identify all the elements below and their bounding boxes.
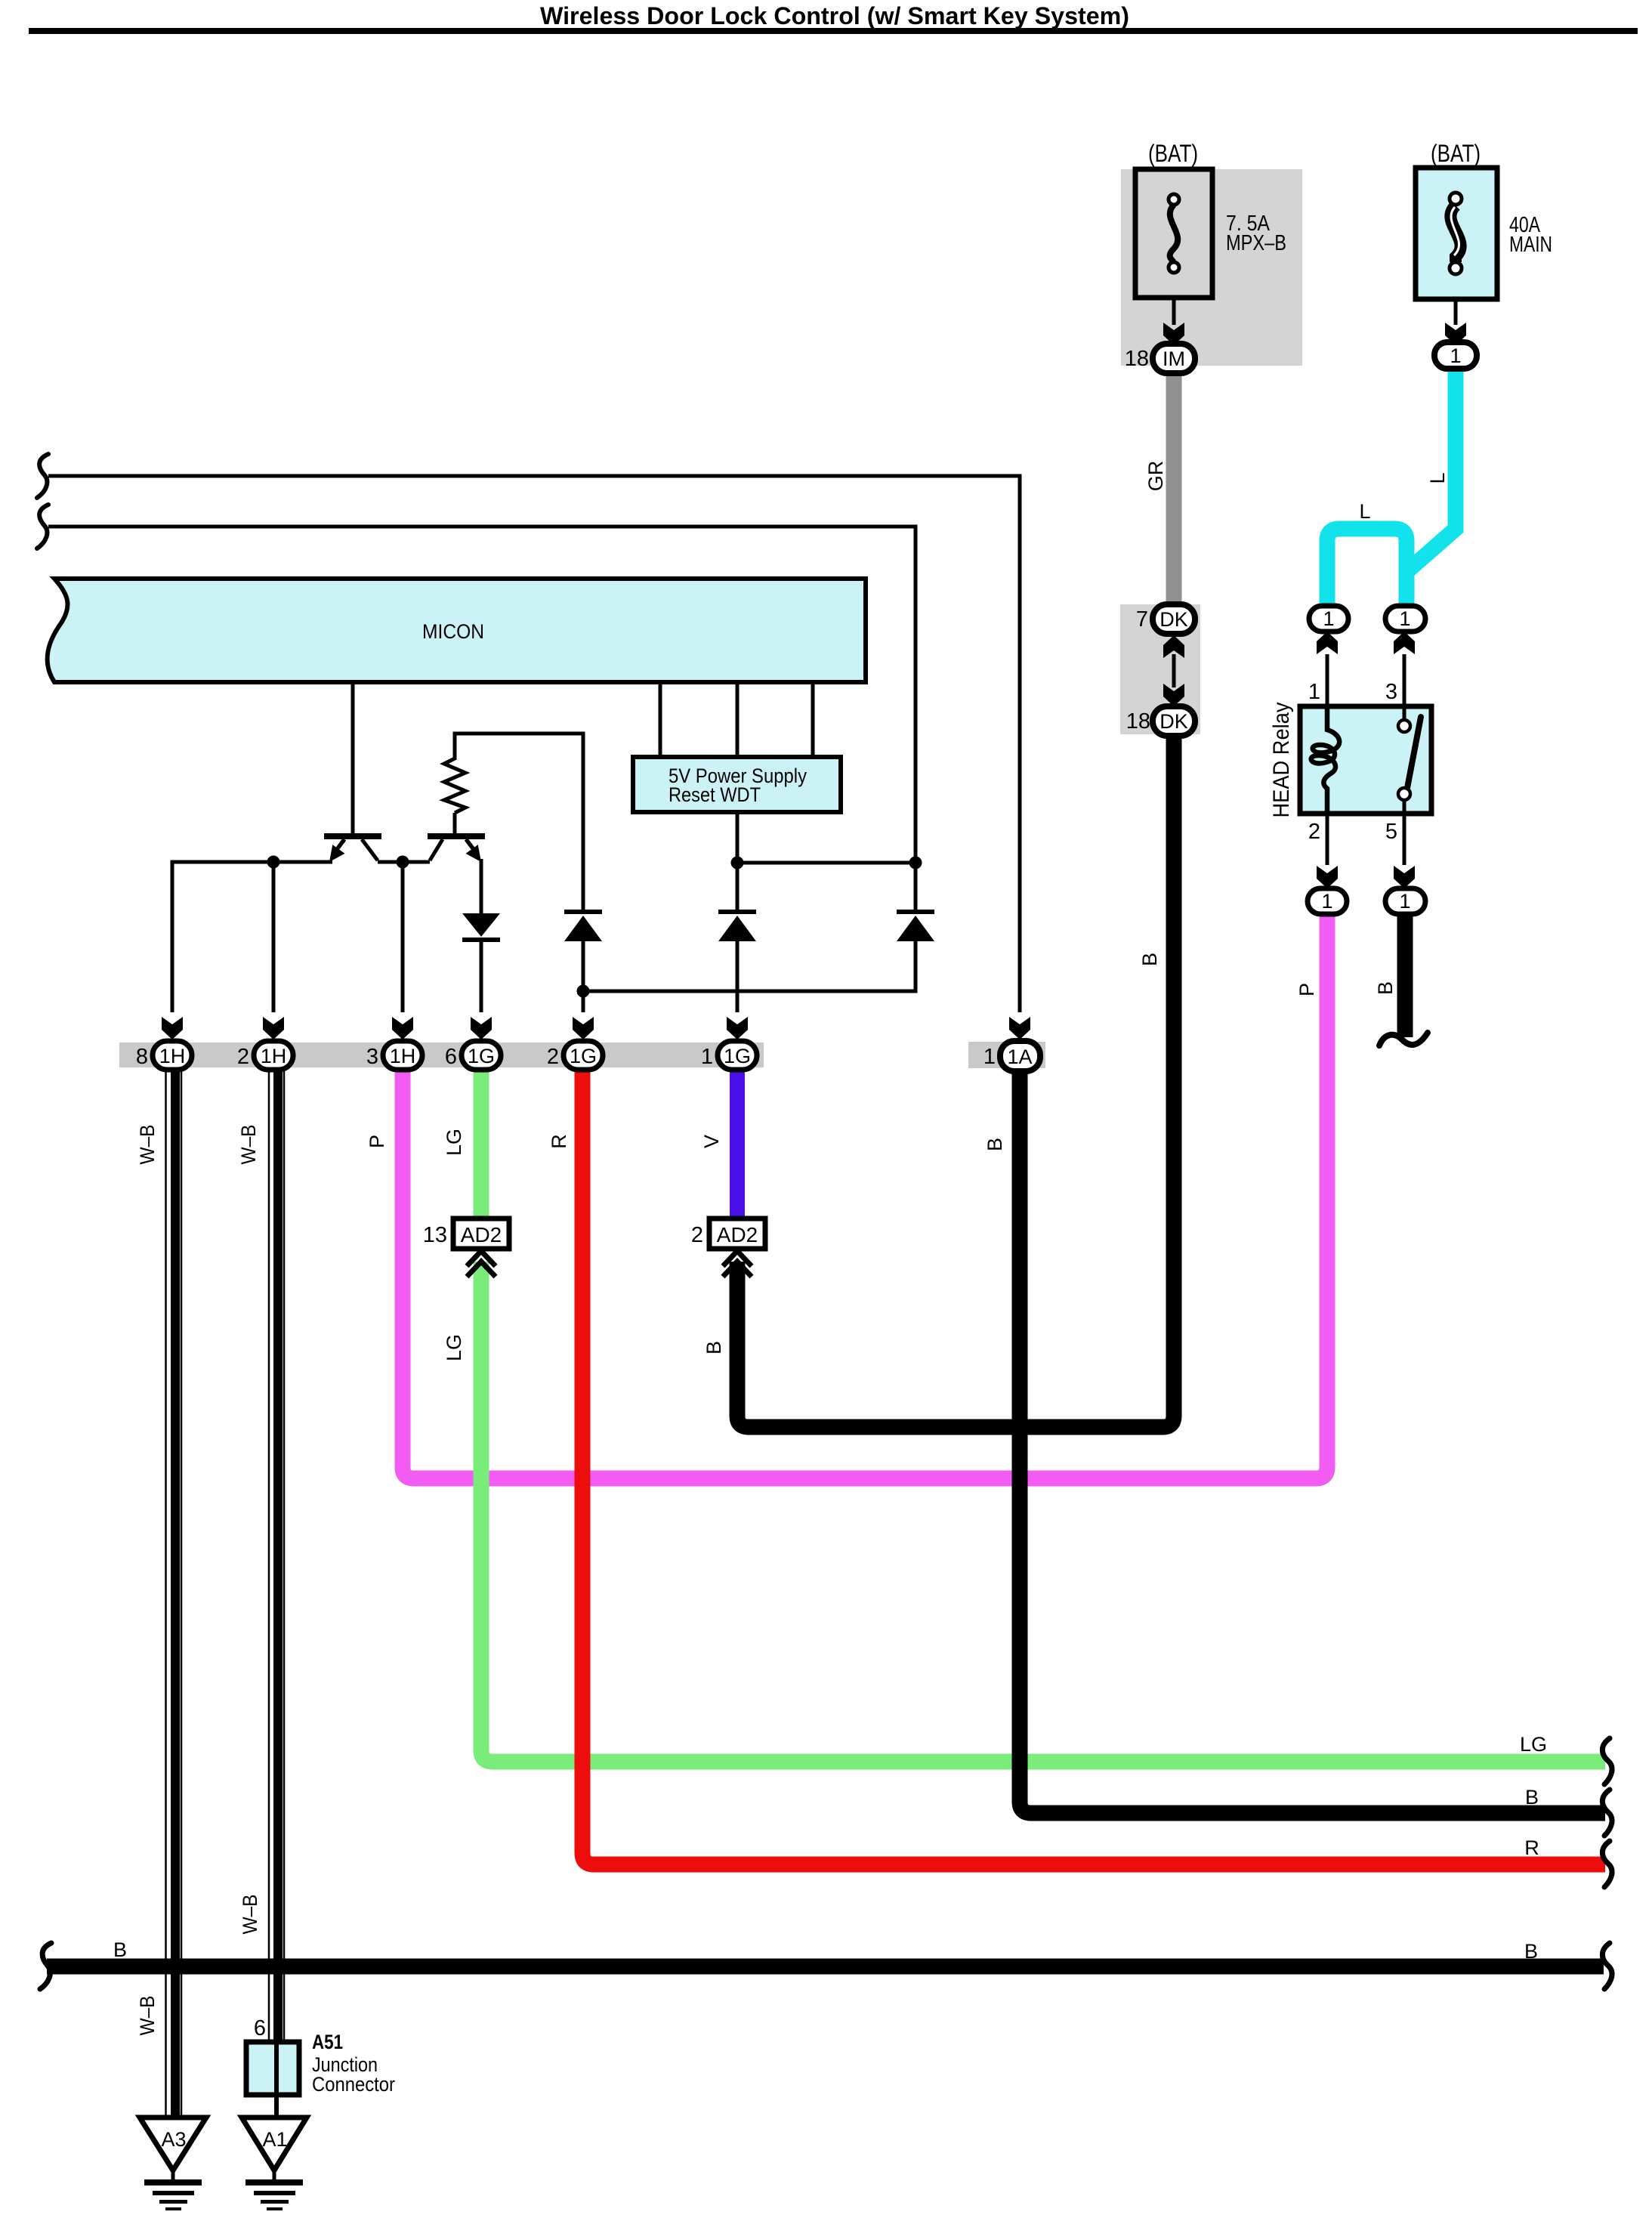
transistor Q1: [324, 833, 381, 839]
diode D2 (up): [564, 910, 602, 914]
wire W-B right black stripe: [273, 1068, 283, 2042]
resistor R1: [444, 758, 465, 833]
svg-text:B: B: [1374, 981, 1397, 995]
ground A1 triangle: [242, 2118, 307, 2170]
ground A1 symbol: [273, 2170, 276, 2180]
wire B ground bus: [47, 1959, 1604, 1975]
wire P pink: 3(1H) to HEAD relay pin2: [403, 913, 1327, 1478]
node dot D4 top: [909, 857, 922, 870]
continuation brace R right: [1602, 1841, 1612, 1887]
connector 2 1G: [564, 1041, 603, 1070]
wire MICON to 5V box (three): [660, 682, 813, 758]
svg-text:HEAD Relay: HEAD Relay: [1269, 703, 1294, 818]
arrow into 1: [1445, 323, 1466, 345]
wire W-B left (8 1H to A3): outline lines: [166, 1068, 182, 2118]
fuse 7.5A MPX-B box: [1135, 169, 1212, 298]
svg-text:1G: 1G: [468, 1045, 495, 1067]
ground A3 symbol: [171, 2170, 175, 2180]
title rule: [29, 28, 1638, 34]
svg-text:3: 3: [1385, 680, 1397, 704]
svg-text:LG: LG: [443, 1129, 465, 1156]
svg-text:1: 1: [1321, 890, 1332, 913]
arrow up to 7DK: [1163, 635, 1184, 658]
wire GR: IM to 7DK: [1166, 372, 1182, 606]
wire L cyan: 40A fuse to relay pin3 connector: [1407, 366, 1456, 610]
svg-text:1H: 1H: [261, 1045, 287, 1067]
svg-text:1H: 1H: [390, 1045, 416, 1067]
svg-text:1H: 1H: [159, 1045, 186, 1067]
connector strip shade 1A: [968, 1042, 1045, 1068]
svg-text:GR: GR: [1144, 461, 1167, 492]
wire R: 2(1G) to right edge: [582, 1068, 1605, 1864]
wire relay pin3 up: [1403, 654, 1407, 705]
svg-text:A3: A3: [161, 2128, 186, 2151]
continuation brace bus right: [1602, 1943, 1612, 1989]
connector 6 1G: [462, 1041, 501, 1070]
wire dot to 2(1H): [272, 862, 276, 1012]
wire B: relay pin5 stub: [1397, 913, 1413, 1037]
relay coil: [1311, 706, 1340, 814]
svg-text:6: 6: [445, 1045, 457, 1069]
wire A51 through to A1: [274, 2042, 279, 2118]
svg-text:1G: 1G: [570, 1045, 597, 1067]
connector 3 1H: [383, 1041, 422, 1070]
svg-text:R: R: [1524, 1836, 1539, 1859]
svg-text:B: B: [1525, 1786, 1539, 1809]
MICON box: [48, 579, 866, 682]
wire dot to 3(1H): [401, 862, 405, 1012]
wire 2 (to D4): [48, 527, 916, 910]
svg-text:B: B: [702, 1341, 725, 1355]
svg-text:8: 8: [136, 1045, 148, 1069]
connector 1 relay bottom-right: [1385, 888, 1425, 914]
svg-text:Wireless Door Lock Control (w/: Wireless Door Lock Control (w/ Smart Key…: [540, 2, 1129, 29]
wire MICON to Q1 base: [351, 682, 355, 836]
diode D4 (up): [897, 910, 934, 914]
svg-text:W–B: W–B: [237, 1125, 260, 1165]
svg-text:B: B: [983, 1138, 1006, 1151]
connector 8 1H: [153, 1041, 192, 1070]
svg-text:B: B: [1524, 1940, 1538, 1963]
wire Q2 collector to D1: [480, 859, 483, 913]
wire 1 (to 1A): [48, 476, 1020, 1012]
wire relay pin5 down: [1403, 814, 1407, 865]
svg-text:P: P: [1295, 983, 1318, 996]
arrow up into right connector: [1394, 632, 1415, 654]
junction block shade (DK): [1120, 604, 1200, 734]
svg-text:2: 2: [547, 1045, 559, 1069]
continuation brace bus left: [40, 1943, 51, 1989]
continuation brace wire2 left: [37, 505, 48, 548]
svg-text:1: 1: [701, 1045, 713, 1069]
svg-text:MICON: MICON: [422, 620, 484, 643]
connector 1 (40A): [1434, 342, 1477, 369]
wire Q1 emitter to 8(1H): [172, 862, 332, 1012]
svg-text:(BAT): (BAT): [1148, 140, 1198, 167]
svg-text:P: P: [366, 1135, 388, 1148]
wire relay pin2 down: [1326, 814, 1329, 865]
wire V: 1(1G) to AD2: [730, 1068, 745, 1220]
wire D2 to 2(1G): [582, 941, 585, 1012]
svg-text:MPX–B: MPX–B: [1226, 231, 1286, 255]
svg-text:W–B: W–B: [136, 1125, 159, 1165]
svg-text:Connector: Connector: [312, 2073, 395, 2096]
svg-text:1G: 1G: [724, 1045, 751, 1067]
svg-text:1: 1: [1399, 890, 1410, 913]
svg-text:AD2: AD2: [461, 1223, 502, 1246]
arrow down to 18DK: [1163, 684, 1184, 706]
svg-text:1: 1: [1308, 680, 1320, 704]
chevrons below 13 AD2: [467, 1251, 496, 1277]
svg-text:1: 1: [1399, 607, 1410, 630]
svg-text:MAIN: MAIN: [1509, 233, 1552, 257]
svg-text:V: V: [700, 1135, 723, 1148]
continuation brace wire1 left: [37, 454, 48, 498]
wire fuse to IM: [1172, 298, 1176, 325]
junction connector A51 box: [246, 2042, 299, 2095]
connector 13 AD2: [453, 1219, 509, 1249]
continuation brace B right: [1602, 1790, 1612, 1836]
wire LG lower: AD2 to right edge: [481, 1262, 1605, 1762]
svg-text:W–B: W–B: [136, 1996, 159, 2036]
connector 2 AD2: [709, 1219, 765, 1249]
svg-text:18: 18: [1126, 709, 1150, 734]
fuse 40A MAIN box: [1416, 168, 1497, 299]
connector 18 IM: [1153, 344, 1195, 373]
svg-text:L: L: [1359, 500, 1370, 523]
wire W-B right (2 1H to A51): outline lines: [269, 1068, 284, 2042]
svg-text:(BAT): (BAT): [1431, 140, 1481, 167]
arrows into strip connectors: [162, 1017, 183, 1039]
connector 1 relay top-right: [1385, 606, 1425, 632]
diode D1 (down): [462, 913, 500, 937]
wire W-B left black stripe: [171, 1068, 180, 2118]
svg-text:2: 2: [237, 1045, 249, 1069]
wire L cyan loop: relay pin1 connector branch: [1327, 529, 1407, 610]
svg-text:1: 1: [983, 1045, 996, 1069]
diode D3 (up): [718, 910, 756, 914]
HEAD relay box: [1300, 706, 1431, 814]
wire relay pin1 up: [1326, 654, 1329, 705]
svg-text:DK: DK: [1159, 608, 1188, 631]
chevrons below 2 AD2: [723, 1251, 752, 1277]
node dot 2(1H): [267, 856, 280, 869]
svg-text:DK: DK: [1159, 710, 1188, 733]
svg-text:1: 1: [1323, 607, 1334, 630]
fuse 7.5A element: [1170, 205, 1178, 262]
connector 1 1A: [1000, 1041, 1040, 1071]
svg-text:1: 1: [1450, 344, 1461, 367]
5V Power Supply Reset WDT box: [633, 757, 841, 812]
wire B: AD2(2) to 18DK: [737, 735, 1174, 1427]
junction block shade (7.5A MPX-B): [1121, 169, 1302, 366]
svg-text:5: 5: [1385, 820, 1397, 844]
svg-text:13: 13: [423, 1223, 447, 1247]
wire 5V box to D3: [736, 812, 740, 910]
svg-text:Reset WDT: Reset WDT: [669, 783, 761, 806]
arrow into IM: [1163, 323, 1184, 345]
arrow up into left connector: [1317, 632, 1338, 654]
wire between DK arrows: [1172, 654, 1176, 687]
arrow down into bottom-right connector: [1394, 866, 1415, 888]
svg-text:LG: LG: [1520, 1733, 1547, 1756]
svg-text:3: 3: [366, 1045, 378, 1069]
connector 1 relay top-left: [1309, 606, 1348, 632]
svg-text:1A: 1A: [1007, 1046, 1032, 1068]
relay switch: [1403, 706, 1407, 718]
connector 2 1H: [254, 1041, 293, 1070]
svg-text:6: 6: [254, 2016, 266, 2040]
wire D1 to 6(1G): [480, 942, 483, 1012]
wire Q1/Q2 mid horizontal: [378, 860, 430, 864]
wire B end curl: [1379, 1033, 1428, 1046]
node dot D3 top: [731, 857, 744, 870]
svg-text:18: 18: [1125, 347, 1149, 371]
connector 18 DK: [1153, 706, 1195, 736]
wire D3 to 1(1G): [736, 941, 740, 1012]
wire B: 1A to right edge: [1020, 1070, 1605, 1813]
svg-text:L: L: [1426, 472, 1449, 483]
continuation brace LG right: [1602, 1738, 1612, 1784]
svg-text:A1: A1: [262, 2128, 287, 2151]
connector 7 DK: [1153, 604, 1195, 634]
ground A3 triangle: [140, 2118, 206, 2170]
wire LG upper: 6(1G) to AD2: [474, 1068, 489, 1220]
node dot D2-D4 bus: [577, 985, 590, 998]
svg-text:R: R: [548, 1134, 570, 1149]
svg-text:LG: LG: [443, 1334, 465, 1361]
connector 1 relay bottom-left: [1308, 888, 1347, 914]
svg-text:AD2: AD2: [717, 1223, 758, 1246]
connector strip shade 1H/1G: [119, 1043, 764, 1067]
svg-text:W–B: W–B: [239, 1895, 261, 1935]
svg-text:2: 2: [1308, 820, 1320, 844]
svg-text:B: B: [113, 1938, 127, 1961]
node dot 3(1H): [397, 856, 409, 869]
svg-text:B: B: [1138, 953, 1161, 966]
svg-text:2: 2: [691, 1223, 703, 1247]
connector 1 1G: [718, 1041, 757, 1070]
arrow down into bottom-left connector: [1317, 866, 1338, 888]
wire fuse to 1: [1454, 299, 1458, 325]
svg-text:7: 7: [1136, 607, 1148, 632]
svg-text:IM: IM: [1163, 348, 1185, 370]
wire D3 dot to D4 dot: [737, 861, 916, 865]
wire resistor top to D2: [455, 734, 583, 910]
wire D4 to lower bus to D2: [583, 941, 916, 991]
svg-text:A51: A51: [312, 2031, 343, 2053]
fuse 40A element: [1450, 205, 1460, 262]
transistor Q2: [428, 833, 485, 839]
